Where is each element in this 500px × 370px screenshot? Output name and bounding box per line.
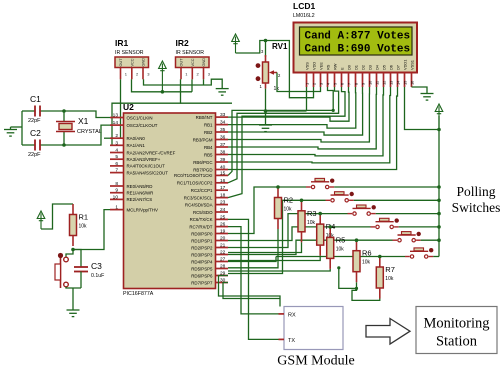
svg-text:OUT: OUT — [180, 58, 184, 67]
svg-text:10k: 10k — [336, 246, 345, 252]
svg-text:5: 5 — [115, 154, 118, 160]
svg-text:15: 15 — [220, 170, 226, 176]
svg-text:PIC16F877A: PIC16F877A — [123, 291, 154, 297]
svg-text:D0: D0 — [347, 64, 352, 70]
wire RD6 to GSM top — [219, 276, 281, 307]
svg-text:37: 37 — [220, 142, 226, 148]
resistor R5 — [329, 227, 331, 238]
svg-text:RC7/RX/DT: RC7/RX/DT — [189, 224, 212, 229]
wire RW to RC1 — [228, 87, 339, 183]
svg-text:D6: D6 — [389, 65, 394, 70]
svg-text:2: 2 — [312, 83, 317, 85]
LCD pin 3 VEE — [320, 73, 322, 88]
pin 38 RB5 — [216, 154, 229, 156]
pin 13 OSC1/CLKIN — [110, 117, 124, 119]
svg-text:GND: GND — [202, 58, 206, 67]
resistor R7 — [379, 257, 381, 268]
svg-text:RX: RX — [288, 313, 296, 319]
wire to ground (C3) — [72, 288, 74, 310]
svg-text:Switches: Switches — [452, 200, 500, 215]
svg-text:13: 13 — [113, 113, 119, 119]
svg-text:RB6/PGC: RB6/PGC — [193, 160, 212, 165]
svg-text:18: 18 — [220, 193, 226, 199]
svg-text:1: 1 — [305, 83, 310, 85]
wire SW4 to RD1 — [228, 227, 330, 241]
wire D0 to RB0 — [228, 87, 349, 121]
svg-text:RE1/AN6/WR: RE1/AN6/WR — [127, 191, 154, 196]
svg-text:17: 17 — [220, 185, 226, 191]
svg-text:RC2/CCP1: RC2/CCP1 — [191, 188, 213, 193]
svg-text:RB7/PGD: RB7/PGD — [193, 167, 212, 172]
wire VSS1 to ground — [412, 87, 428, 94]
svg-text:U2: U2 — [123, 102, 134, 112]
power arrow (IR VCC) — [159, 61, 167, 92]
svg-text:38: 38 — [220, 150, 226, 156]
svg-text:35: 35 — [220, 127, 226, 133]
svg-text:RA2/AN2/VREF-/CVREF: RA2/AN2/VREF-/CVREF — [127, 150, 176, 155]
wire TX — [228, 219, 279, 339]
wire SW5 to RD3 — [228, 240, 357, 254]
switch SW4 — [371, 226, 376, 228]
svg-text:RE2/AN7/CS: RE2/AN7/CS — [127, 197, 153, 202]
svg-text:E: E — [340, 67, 345, 70]
svg-text:12: 12 — [382, 81, 387, 85]
resistor R2 — [277, 187, 279, 198]
block arrow — [366, 319, 410, 345]
svg-text:IR SENSOR: IR SENSOR — [115, 50, 144, 56]
pin 19 RD0/PSP0 — [216, 233, 229, 235]
svg-text:RB0/INT: RB0/INT — [196, 115, 213, 120]
svg-text:19: 19 — [220, 229, 226, 235]
wire R7 bottom loop — [352, 288, 380, 300]
wire SW2 row — [302, 199, 326, 201]
LCD pin 8 D1 — [355, 73, 357, 88]
pin 10 RE2/AN7/CS — [110, 198, 124, 200]
svg-text:R6: R6 — [362, 249, 372, 258]
switch SW2 — [326, 199, 331, 201]
wire IR VCC rail — [132, 79, 193, 92]
wire crystal left vertical — [21, 111, 23, 145]
svg-text:RB2: RB2 — [204, 130, 213, 135]
node RV1 top — [264, 39, 268, 43]
pin 23 RC4/SDI/SDA — [216, 204, 229, 206]
svg-text:6: 6 — [115, 161, 118, 167]
svg-text:RA3/AN3/VREF+: RA3/AN3/VREF+ — [127, 157, 161, 162]
svg-text:RD0/PSP0: RD0/PSP0 — [191, 231, 213, 236]
svg-text:13: 13 — [389, 81, 394, 85]
node crystal-C2 — [62, 143, 66, 147]
svg-text:R7: R7 — [385, 265, 395, 274]
LCD pin 4 RS — [327, 73, 329, 88]
svg-text:D5: D5 — [382, 65, 387, 70]
GSM module — [284, 307, 343, 350]
push button (reset) — [66, 250, 73, 258]
LCD pin 10 D3 — [369, 73, 371, 88]
wire SW1 row — [278, 186, 306, 188]
svg-text:RC5/SDO: RC5/SDO — [193, 210, 213, 215]
IR sensor IR2 — [176, 57, 210, 68]
wire to MCLR — [73, 210, 110, 250]
LCD pin 14 D7 — [397, 73, 399, 88]
wire D1 to RB1 — [228, 87, 356, 128]
wire SW6 to rail — [433, 256, 439, 258]
LCD pin 12 D5 — [383, 73, 385, 88]
svg-text:22pF: 22pF — [28, 152, 41, 158]
svg-text:RC6/TX/CK: RC6/TX/CK — [190, 217, 213, 222]
wire R4 bottom — [228, 256, 320, 261]
svg-text:10: 10 — [113, 194, 119, 200]
svg-text:33: 33 — [220, 112, 226, 118]
pin 26 RC7/RX/DT — [216, 226, 229, 228]
svg-text:RA5/AN4/SS/C2OUT: RA5/AN4/SS/C2OUT — [127, 170, 169, 175]
svg-text:Polling: Polling — [456, 184, 495, 199]
svg-text:C1: C1 — [30, 94, 41, 104]
switch SW3 — [348, 213, 353, 215]
svg-text:RD5/PSP5: RD5/PSP5 — [191, 266, 213, 271]
LCD pin 5 RW — [334, 73, 336, 88]
svg-text:14: 14 — [113, 120, 119, 126]
svg-text:22: 22 — [220, 250, 226, 256]
svg-text:10k: 10k — [79, 224, 88, 230]
svg-text:9: 9 — [115, 188, 118, 194]
svg-text:RC1/T1OSI/CCP2: RC1/T1OSI/CCP2 — [177, 181, 213, 186]
svg-text:20: 20 — [220, 236, 226, 242]
svg-text:10k: 10k — [362, 260, 371, 266]
LCD pin 6 E — [341, 73, 343, 88]
capacitor C3 — [73, 250, 81, 268]
wire SW6 row — [380, 256, 405, 258]
power arrow (RV1) — [232, 34, 240, 53]
svg-text:36: 36 — [220, 135, 226, 141]
wire VDD1 to VCC rail — [405, 87, 440, 130]
node RS corner — [332, 109, 335, 112]
pin 4 RA2/AN2/VREF-/CVREF — [110, 152, 124, 154]
wire SW3 row — [320, 213, 347, 215]
wire above chip — [181, 102, 233, 104]
svg-text:RS: RS — [326, 64, 331, 70]
svg-text:6: 6 — [340, 83, 345, 85]
wire SW5 to rail — [421, 239, 439, 241]
pin 2 RA0/AN0 — [110, 137, 124, 139]
node VCC arrow — [161, 90, 165, 94]
pin 15 RC0/T1OSO/T1CKI — [216, 174, 229, 176]
wire arrow to RV1 node — [236, 41, 266, 54]
crystal X1 — [63, 111, 65, 121]
svg-text:RB3/PGM: RB3/PGM — [193, 137, 213, 142]
svg-text:Station: Station — [436, 334, 478, 350]
wire D6 to RB6 — [228, 87, 391, 163]
capacitor C2 — [22, 144, 35, 146]
svg-text:24: 24 — [220, 207, 226, 213]
LCD pin 2 VDD — [313, 73, 315, 88]
wire R3 bottom — [228, 242, 302, 252]
LCD pin 9 D2 — [362, 73, 364, 88]
svg-text:RW: RW — [333, 63, 338, 70]
capacitor C1 — [22, 110, 35, 112]
svg-text:RD1/PSP1: RD1/PSP1 — [191, 238, 213, 243]
wire SW2 to RD6 — [228, 200, 302, 273]
svg-text:OSC1/CLKIN: OSC1/CLKIN — [127, 115, 153, 120]
svg-text:C3: C3 — [91, 261, 102, 271]
wire RD7 to GSM top — [223, 283, 280, 299]
wire D5 to RB5 — [228, 87, 384, 156]
svg-text:R1: R1 — [79, 213, 89, 222]
svg-text:34: 34 — [220, 120, 226, 126]
svg-text:3: 3 — [319, 83, 324, 85]
svg-text:21: 21 — [220, 243, 226, 249]
ground (RV1/LCD) — [259, 125, 272, 132]
svg-text:D3: D3 — [368, 65, 373, 70]
resistor R4 — [319, 214, 321, 225]
wire to ground stub — [11, 126, 23, 128]
svg-text:Cand A:877 Votes: Cand A:877 Votes — [305, 30, 411, 42]
svg-text:RC0/T1OSO/T1CKI: RC0/T1OSO/T1CKI — [174, 173, 213, 178]
pin 33 RB0/INT — [216, 116, 229, 118]
ground (LCD VSS1) — [421, 94, 434, 101]
svg-text:RB1: RB1 — [204, 122, 213, 127]
svg-text:Cand B:690 Votes: Cand B:690 Votes — [305, 43, 411, 55]
svg-text:X1: X1 — [78, 116, 89, 126]
LCD pin 11 D4 — [376, 73, 378, 88]
svg-text:RC4/SDI/SDA: RC4/SDI/SDA — [185, 202, 213, 207]
wire arrow to R1 — [41, 204, 73, 229]
svg-text:IR2: IR2 — [176, 38, 190, 48]
switch SW6 — [405, 256, 410, 258]
svg-text:RD2/PSP2: RD2/PSP2 — [191, 245, 213, 250]
pin 25 RC6/TX/CK — [216, 218, 229, 220]
pin 34 RB1 — [216, 124, 229, 126]
pin 9 RE1/AN6/WR — [110, 192, 124, 194]
svg-text:VEE: VEE — [319, 62, 324, 70]
svg-text:MCLR/Vpp/THV: MCLR/Vpp/THV — [127, 207, 159, 212]
svg-text:28: 28 — [220, 264, 226, 270]
svg-text:LCD1: LCD1 — [293, 1, 315, 11]
svg-text:RD3/PSP3: RD3/PSP3 — [191, 252, 213, 257]
pin 30 RD7/PSP7 — [216, 282, 229, 284]
LCD pin 13 D6 — [390, 73, 392, 88]
wire D2 to RB2 — [228, 87, 363, 135]
svg-text:16: 16 — [220, 178, 226, 184]
pin 8 RE0/AN5/RD — [110, 185, 124, 187]
svg-text:VCC: VCC — [191, 58, 195, 66]
wire OSC2 — [64, 125, 110, 145]
wire ground to LCD VSS — [266, 110, 307, 112]
wire SW3 to rail — [376, 213, 439, 215]
svg-text:25: 25 — [220, 214, 226, 220]
pin 5 RA3/AN3/VREF+ — [110, 158, 124, 160]
svg-text:R3: R3 — [307, 209, 317, 218]
svg-text:GND: GND — [142, 58, 146, 67]
pin 28 RD5/PSP5 — [216, 268, 229, 270]
power arrow (switch rail) — [435, 104, 443, 130]
wire SW4 to rail — [399, 226, 439, 228]
svg-text:11: 11 — [375, 81, 380, 85]
svg-text:C2: C2 — [30, 128, 41, 138]
wire R2 bottom — [228, 229, 278, 268]
pin 18 RC3/SCK/SCL — [216, 197, 229, 199]
wire R5 bottom — [228, 269, 330, 271]
svg-text:39: 39 — [220, 157, 226, 163]
svg-text:IR1: IR1 — [115, 38, 129, 48]
wire SW1 to rail — [334, 186, 439, 188]
wire SW3 to RD2 — [228, 214, 320, 248]
svg-text:VCC: VCC — [130, 58, 134, 66]
LCD pin 15 VDD1 — [404, 73, 406, 88]
svg-text:RB4: RB4 — [204, 145, 213, 150]
LCD pin 16 VSS1 — [411, 73, 413, 88]
wire D7 to RB7 — [228, 87, 398, 170]
svg-text:27: 27 — [220, 257, 226, 263]
svg-text:26: 26 — [220, 222, 226, 228]
wire SW6 row left — [276, 256, 380, 258]
switch SW5 — [393, 239, 398, 241]
svg-text:IR SENSOR: IR SENSOR — [176, 50, 205, 56]
pin 37 RB4 — [216, 146, 229, 148]
svg-text:RE0/AN5/RD: RE0/AN5/RD — [127, 184, 153, 189]
potentiometer RV1 — [265, 41, 267, 58]
svg-text:0.1uF: 0.1uF — [91, 273, 104, 279]
svg-text:Monitoring: Monitoring — [423, 316, 489, 332]
svg-text:D2: D2 — [361, 65, 366, 70]
svg-text:15: 15 — [403, 81, 408, 85]
pin 14 OSC2/CLKOUT — [110, 124, 124, 126]
wire IR GND rail — [144, 79, 223, 88]
power arrow (reset) — [37, 211, 45, 229]
pin 36 RB3/PGM — [216, 139, 229, 141]
svg-text:OSC2/CLKOUT: OSC2/CLKOUT — [127, 123, 158, 128]
wire IR1 OUT to RA0 — [120, 79, 122, 138]
svg-text:D7: D7 — [396, 65, 401, 70]
svg-text:RA1/AN1: RA1/AN1 — [127, 143, 146, 148]
resistor R3 — [301, 200, 303, 211]
pin 6 RA4/T0CKI/C1OUT — [110, 165, 124, 167]
pin 20 RD1/PSP1 — [216, 240, 229, 242]
node crystal-C1 — [62, 109, 66, 113]
pin 3 RA1/AN1 — [110, 144, 124, 146]
svg-text:CRYSTAL: CRYSTAL — [77, 129, 102, 135]
svg-text:RD4/PSP4: RD4/PSP4 — [191, 259, 213, 264]
wire D3 to RB3 — [228, 87, 370, 142]
svg-text:7: 7 — [347, 83, 352, 85]
node RV1 ground — [264, 109, 268, 113]
wire IR2 OUT to RA1 — [110, 79, 181, 145]
svg-text:RA4/T0CKI/C1OUT: RA4/T0CKI/C1OUT — [127, 164, 166, 169]
svg-text:GSM Module: GSM Module — [277, 354, 354, 369]
svg-text:VDD1: VDD1 — [403, 60, 408, 70]
LCD pin 7 D0 — [348, 73, 350, 88]
ground (IR sensors) — [216, 89, 229, 96]
svg-text:10k: 10k — [284, 207, 293, 213]
pin 7 RA5/AN4/SS/C2OUT — [110, 172, 124, 174]
node rail VDD1 — [437, 128, 441, 132]
svg-text:5: 5 — [333, 83, 338, 85]
svg-text:LM016L2: LM016L2 — [293, 13, 315, 19]
svg-text:RD7/PSP7: RD7/PSP7 — [191, 280, 213, 285]
wire RX — [228, 227, 279, 314]
wire D4 to RB4 — [228, 87, 377, 149]
svg-text:R5: R5 — [336, 235, 346, 244]
pin 21 RD2/PSP2 — [216, 247, 229, 249]
svg-text:VSS: VSS — [305, 62, 310, 70]
resistor R6 — [356, 240, 358, 251]
svg-text:D4: D4 — [375, 64, 380, 70]
pin 1 MCLR/Vpp/THV — [110, 209, 124, 211]
ground (reset) — [67, 310, 80, 317]
switch SW1 — [306, 186, 311, 188]
svg-text:TX: TX — [288, 338, 295, 344]
IR sensor IR1 — [115, 57, 149, 68]
svg-text:16: 16 — [410, 81, 415, 85]
svg-text:9: 9 — [361, 83, 366, 85]
wire OSC1 — [64, 111, 110, 118]
wire SW4 row — [330, 226, 370, 228]
svg-text:OUT: OUT — [119, 58, 123, 67]
pin 24 RC5/SDO — [216, 211, 229, 213]
pin 17 RC2/CCP1 — [216, 189, 229, 191]
svg-text:22pF: 22pF — [28, 118, 41, 124]
pin 39 RB6/PGC — [216, 161, 229, 163]
svg-text:8: 8 — [354, 83, 359, 85]
svg-text:D1: D1 — [354, 65, 359, 70]
wire VCC to LCD VDD — [266, 41, 314, 98]
pin 22 RD3/PSP3 — [216, 254, 229, 256]
pin 35 RB2 — [216, 131, 229, 133]
pin 29 RD6/PSP6 — [216, 275, 229, 277]
svg-text:10k: 10k — [307, 220, 316, 226]
svg-text:4: 4 — [115, 148, 118, 154]
wire E to RC3 — [228, 87, 345, 198]
ground (crystal) — [4, 130, 17, 137]
svg-text:RA0/AN0: RA0/AN0 — [127, 136, 146, 141]
pin 40 RB7/PGD — [216, 169, 229, 171]
svg-text:RB5: RB5 — [204, 152, 213, 157]
svg-text:1: 1 — [115, 205, 118, 211]
LCD pin 1 VSS — [306, 73, 308, 88]
svg-text:3: 3 — [115, 140, 118, 146]
svg-text:RD6/PSP6: RD6/PSP6 — [191, 273, 213, 278]
wire R6 bottom — [339, 268, 357, 289]
pin 27 RD4/PSP4 — [216, 261, 229, 263]
pin 16 RC1/T1OSI/CCP2 — [216, 182, 229, 184]
wire RV1 wiper to VEE — [277, 73, 321, 92]
svg-text:7: 7 — [115, 168, 118, 174]
wire VCC rail — [438, 116, 440, 257]
node R1 bottom — [71, 248, 75, 252]
wire RS to RC0 — [228, 87, 333, 175]
resistor R1 — [72, 204, 74, 215]
svg-text:10k: 10k — [385, 276, 394, 282]
wire SW1 to RD0 — [228, 187, 278, 234]
svg-text:8: 8 — [115, 181, 118, 187]
svg-text:R2: R2 — [284, 196, 294, 205]
svg-text:VSS1: VSS1 — [410, 60, 415, 70]
svg-text:23: 23 — [220, 200, 226, 206]
svg-text:40: 40 — [220, 165, 226, 171]
svg-text:RV1: RV1 — [272, 42, 288, 51]
svg-text:2: 2 — [115, 133, 118, 139]
svg-text:RC3/SCK/SCL: RC3/SCK/SCL — [184, 195, 213, 200]
wire SW5 row — [357, 239, 393, 241]
monitoring station box — [416, 307, 497, 354]
wire SW2 to rail — [354, 199, 439, 201]
svg-text:VDD: VDD — [312, 62, 317, 70]
